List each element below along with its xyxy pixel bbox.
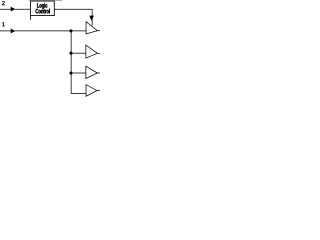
junction node A <box>69 29 72 32</box>
buffer amp 2 <box>86 45 97 58</box>
background <box>0 0 100 100</box>
box U1 Logic Control <box>30 1 54 16</box>
output wire 4 <box>97 90 100 92</box>
arrowhead input 1 <box>11 29 15 34</box>
label 2 <box>2 1 5 5</box>
output wire 1 <box>97 30 100 32</box>
label 1 <box>2 22 5 26</box>
box left border tail <box>29 16 31 20</box>
arrowhead enable down <box>89 16 94 21</box>
junction node C <box>69 71 72 74</box>
output wire 3 <box>97 72 100 74</box>
arrowhead input 2 <box>11 7 15 12</box>
buffer amp 4 <box>86 85 97 97</box>
label Logic <box>37 3 47 9</box>
wire stub buffer3 <box>71 72 86 74</box>
label Control <box>36 9 50 14</box>
wire input 1 <box>0 30 86 32</box>
faint top line <box>29 0 62 1</box>
wire box output to corner and down <box>54 9 92 25</box>
wire input 2 <box>0 8 30 10</box>
wire stub buffer2 <box>71 52 86 54</box>
junction node B <box>69 52 72 55</box>
output wire 2 <box>97 52 100 54</box>
buffer amp 1 <box>86 22 97 34</box>
buffer amp 3 <box>86 66 97 78</box>
wire bus vertical and bottom <box>71 31 86 94</box>
